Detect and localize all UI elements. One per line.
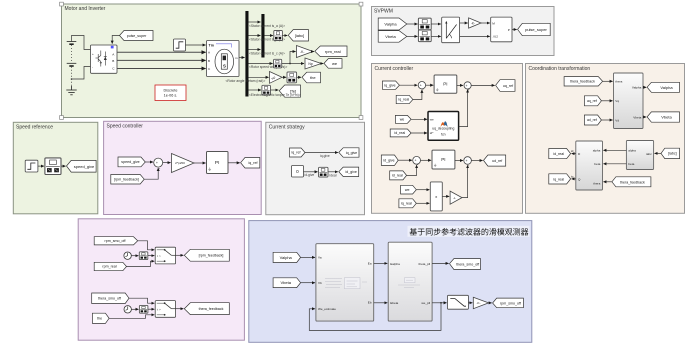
svg-text:uq_decoupling: uq_decoupling [432,127,454,131]
goto speed_give [67,160,97,172]
svg-text:x: x [435,194,437,199]
mux bar currents [261,14,264,58]
svg-text:1e-06 s.: 1e-06 s. [164,94,178,98]
switch rpm [155,247,175,264]
svg-text:P: P [508,28,510,32]
svg-text:-L: -L [453,196,456,200]
goto [rpm_feedback] [184,249,229,261]
svg-text:Valpha: Valpha [660,85,673,90]
svg-text:id-give: id-give [305,173,315,177]
wire compare2 to switch2 [148,308,154,310]
wire id_real to decoupling [411,132,427,134]
constant 0 [292,166,304,178]
svg-text:We_estimate: We_estimate [318,307,336,311]
svg-text:we: we [430,117,434,121]
From id_real q [390,129,411,137]
goto [iabc] [288,30,308,41]
product block [430,182,442,211]
wire theta to goto [432,262,449,264]
wire clock to compare [131,255,138,257]
label thetam [226,79,266,83]
svg-text:Ea: Ea [368,261,372,265]
svg-text:+: + [92,52,94,56]
svg-text:[rpm_feedback]: [rpm_feedback] [199,254,224,258]
cartesian to polar block [442,17,460,43]
From Vbeta smo [273,278,301,288]
wire beta between blocks [603,163,626,165]
wire iq_ref to iq_give [305,152,338,154]
From rpm_feedback [111,175,144,185]
step block Speed step [174,39,186,51]
wire alpha between blocks [603,149,626,151]
wire gain to rpm_real [313,51,314,53]
wire sum3 to PI d [421,159,432,161]
wire is_b [249,35,261,37]
svg-text:Ealpha: Ealpha [390,262,400,266]
wire we to product [416,189,429,191]
wire mux to rate transition iabc [265,35,273,37]
dq to alphabeta block [614,73,644,129]
gain -K- rpm [297,46,314,58]
wire product to gain [442,195,449,197]
wire gain to rpm_smo_off [489,302,492,304]
wire pulse_super to g port [112,36,119,44]
svg-text:<Electromagnetic torque Te (N*: <Electromagnetic torque Te (N*m)> [249,93,301,97]
goto we [324,59,342,69]
svg-text:ideal: ideal [330,174,337,178]
wire sum to gain [163,162,171,164]
wire ud_ref to dq2ab [601,119,612,121]
sum speed [154,158,163,170]
svg-text:alpha: alpha [628,149,636,153]
svg-text:Discrete: Discrete [164,88,178,92]
svg-text:Vd: Vd [615,118,619,122]
wire gain to sum4 [462,165,468,197]
wire PI to iq_ref [228,162,240,164]
bus selector bar [245,11,248,97]
svg-text:pulse_super: pulse_super [127,34,147,38]
svg-text:Speed reference: Speed reference [16,125,53,131]
From Valpha svpwm [378,18,407,30]
wire is_c [249,49,261,51]
svg-text:SVPWM: SVPWM [374,9,393,15]
wire Valpha to rate transition [407,23,418,25]
svg-text:Motor and Inverter: Motor and Inverter [65,6,106,12]
svg-text:Coordination transformation: Coordination transformation [529,66,591,72]
From thera_feedback mirrored [612,177,651,187]
goto ud_ref [484,155,506,166]
wire step to selector [38,165,44,167]
svg-text:iabc: iabc [646,152,652,156]
goto [Te] [279,85,300,97]
svg-text:[iabc]: [iabc] [295,33,305,38]
svg-text:[rpm_feedback]: [rpm_feedback] [114,178,139,182]
ground [66,86,76,95]
svg-text:-: - [92,65,93,69]
abc to alphabeta block [626,141,653,170]
wire sum4 to ud_ref [471,160,482,162]
wire Ea to Ealpha [374,262,388,264]
svg-text:iq_ref: iq_ref [249,161,258,165]
gain Np [305,58,321,69]
wire to polar block bottom [431,35,441,37]
svpwm subsystem [491,17,512,42]
wire gain to subsystem M [481,22,490,24]
wire sum2 to uq_ref [471,84,495,86]
svg-text:iq_ref: iq_ref [292,151,301,155]
svg-text:thera_feedback: thera_feedback [570,80,595,84]
wire decoupling to sum2 [459,90,468,127]
goto id_give [339,167,359,176]
gain smo [473,297,488,308]
svg-text:iq_real: iq_real [553,177,564,181]
panel Current controller [372,64,523,214]
goto iq_give [339,148,359,157]
wire to goto Te [271,89,279,91]
wire rpm_feedback to sum [144,168,158,179]
title SMO chinese [408,226,530,237]
wire to goto the [297,76,302,78]
From [iabc] mirrored [661,148,680,158]
wire PI d to sum4 [455,160,463,162]
svg-text:Np: Np [308,62,312,66]
svg-text:iq_give: iq_give [384,83,395,87]
From we q [395,115,411,123]
svg-text:id_give: id_give [346,170,357,174]
svg-text:id: id [571,149,574,153]
PI controller d [432,150,455,169]
DC source V1 [67,42,77,89]
wire switch2 to thera_feedback [176,308,184,310]
svg-text:+: + [156,161,158,165]
svg-text:we_pll: we_pll [421,301,430,305]
wire inverter C to motor C [117,68,206,70]
svg-text:Vbeta: Vbeta [280,280,291,285]
goto uq_ref [496,80,515,92]
svg-text:iq_real: iq_real [398,98,409,102]
From iq_real q [396,95,413,103]
label ideal [330,174,337,178]
label is_c [249,51,285,55]
svg-text:pulse_super: pulse_super [525,27,547,32]
svg-text:we: we [400,118,405,122]
wire sum to PI q [426,84,434,86]
svg-text:Vb: Vb [318,281,322,285]
svg-text:uq_ref: uq_ref [503,84,513,88]
wire thetam [249,76,269,78]
svg-text:id_give: id_give [383,158,394,162]
svg-text:thera_smo_off: thera_smo_off [456,263,479,267]
sum uq [464,82,471,92]
From rpm_smo_off [94,237,138,245]
svg-text:ud_ref: ud_ref [587,118,597,122]
wire we to lowpass and feedback [309,302,446,331]
svg-text:B: B [112,59,114,63]
svg-text:iq_real: iq_real [401,202,412,206]
svg-text:-K-: -K- [471,21,475,25]
svg-text:thera: thera [593,182,600,186]
From iq_give [382,81,399,89]
svg-text:Va: Va [318,256,322,260]
panel Speed controller [104,121,262,214]
PI controller speed [207,152,229,174]
goto Vbeta [647,112,679,122]
svg-text:beta: beta [628,162,634,166]
svg-text:M: M [492,21,495,25]
clock rpm [124,252,131,259]
gain Lq [450,191,462,204]
wire to polar block top [431,23,441,25]
svg-text:Current controller: Current controller [375,66,414,72]
wire iq_give to sum [399,84,417,86]
compare block rpm [139,252,148,260]
panel Speed reference [13,122,98,214]
From Valpha smo [273,252,301,262]
svg-text:m: m [235,56,238,60]
wire polar to gain [460,22,468,24]
wire Np to we [321,63,323,65]
svg-text:thera_feedback: thera_feedback [199,307,224,311]
svg-text:beta: beta [594,162,600,166]
panel sliding-mode observer [249,221,532,343]
goto Valpha [647,82,679,92]
wire PI q to sum2 [457,84,463,86]
wire battery+ to inverter [72,36,91,50]
svg-text:the: the [310,75,316,80]
svg-text:Valpha: Valpha [632,86,642,90]
wire the to switch2 [109,315,154,319]
From the [92,313,109,323]
PI controller q [434,75,457,93]
svg-text:theta_pll: theta_pll [418,262,430,266]
svg-text:0: 0 [296,169,299,174]
wire subsystem to goto [512,29,517,31]
wire gain to PI speed [194,162,206,164]
wire to goto iabc [282,35,287,37]
label id-give [305,173,315,177]
gain 2pi60 [172,154,195,173]
sum id [413,156,421,167]
wire rpm_real to switch [127,261,155,266]
svg-text:thera_feedback: thera_feedback [620,180,645,184]
From we d [401,185,417,194]
svg-text:Valpha: Valpha [384,22,397,27]
svg-text:iq-give: iq-give [320,154,330,158]
sum ud [464,157,472,168]
wire clock2 to compare2 [131,308,138,310]
svg-text:iq_give: iq_give [346,151,357,155]
svg-text:thera: thera [615,80,622,84]
From thera_feedback top [564,77,603,86]
svg-text:t >: t > [157,308,161,312]
rate transition thetam [287,72,297,83]
svg-text:PI: PI [215,160,220,166]
wire step to motor Tm [186,44,206,46]
wire is_a [249,21,261,23]
label is_a [249,24,285,28]
wire speed_give to sum [145,161,153,163]
wire D to id_real [571,149,576,153]
svg-text:alpha: alpha [593,149,601,153]
wire inverter B to motor B [117,59,206,61]
From id_real d [390,171,407,180]
From thera_smo_off [92,293,129,304]
wire Vbeta to rate transition [407,35,418,37]
goto thera_smo_off [450,259,481,270]
svg-text:Valpha: Valpha [280,255,293,260]
svg-text:<Stator current is_a (A)>: <Stator current is_a (A)> [249,24,285,28]
svg-text:we: we [332,61,338,66]
rate transition Vbeta [418,30,431,42]
label is_b [249,37,285,41]
label wm [249,65,287,69]
goto rpm_real [315,46,347,57]
svg-text:rpm_real: rpm_real [102,265,116,269]
From tag pulse_super [120,31,154,41]
wire Q to iq_real [571,175,576,179]
wire thera_smo_off to switch [129,298,154,303]
From speed_give [118,157,145,167]
wire uq_ref to dq2ab [601,100,612,102]
label Te [249,93,301,97]
PMSM motor block [207,41,240,77]
PLL block [388,242,432,321]
wire Te [249,89,262,91]
label iq-give [320,154,330,158]
svg-text:Speed controller: Speed controller [107,124,144,130]
wire iq_real to sum [413,90,422,100]
powergui Discrete [155,85,186,101]
svg-text:-K-: -K- [300,50,305,54]
sum iq [418,82,425,92]
wire thera to dq2ab [603,80,613,82]
rate transition id [319,167,329,177]
matlab function uq_decoupling [428,112,459,141]
wire selector to goto [61,165,66,167]
From iq_ref [290,148,306,157]
From Vbeta svpwm [378,31,407,43]
wire iabc to abc2ab [655,152,662,154]
svg-text:S: S [223,64,226,69]
goto iq_ref [241,158,260,169]
wire wm to rate transition [249,63,273,65]
wire lowpass to gain [468,302,472,304]
wire id_real to sum3 [407,165,417,175]
svg-text:Vbeta: Vbeta [661,115,672,120]
svg-text:Vbeta: Vbeta [385,34,396,39]
panel Current strategy [266,122,365,214]
goto id_real mirrored [549,149,571,159]
From rpm_real [94,262,126,270]
panel feedback switch area [78,219,244,340]
svg-text:Vq: Vq [615,99,619,103]
svg-text:rpm_smo_off: rpm_smo_off [105,239,126,243]
wire compare to switch [148,255,155,257]
svg-text:the: the [97,317,102,321]
rate transition Valpha [418,18,431,30]
svg-text:[iabc]: [iabc] [668,152,677,156]
svg-text:Vbeta: Vbeta [633,115,641,119]
wire switch to rpm_feedback [176,254,184,256]
svg-text:fcn: fcn [441,132,446,136]
lowpass block [448,295,469,309]
gain -K- svpwm [469,18,481,28]
svg-text:Current strategy: Current strategy [269,125,305,131]
wire we to decoupling [411,118,427,120]
gain R2D [270,72,283,84]
goto thera_feedback [184,303,229,315]
wire rate to id_give [328,171,338,173]
svg-text:ud_ref: ud_ref [492,159,502,163]
wire rpm_smo_off to switch [138,241,155,250]
goto the [302,72,321,83]
svg-text:t >: t > [157,254,161,258]
svg-text:rpm_smo_off: rpm_smo_off [500,301,521,305]
panel Motor and Inverter [60,2,363,119]
wire id_give to sum3 [398,159,412,161]
clock thera [124,306,131,313]
svg-text:PI: PI [441,157,445,162]
svg-text:<Stator current is_c (A)>: <Stator current is_c (A)> [249,51,285,55]
SMO block [316,244,374,321]
svg-text:speed_give: speed_give [74,164,95,169]
rate transition wm [274,59,282,68]
svg-text:B: B [208,59,210,63]
panel SVPWM [372,7,555,56]
svg-text:2*pi/60: 2*pi/60 [175,161,185,165]
svg-text:Tm: Tm [209,44,214,48]
wire Vbeta to smo [301,282,315,284]
wire wm branch [282,52,304,65]
signal selector block [45,158,61,175]
svg-text:-K-: -K- [477,301,481,305]
rate transition iabc [274,31,283,41]
wire thera to ab2dq [603,181,612,183]
wire polar to subsystem U2 [460,35,490,37]
step block speed reference [25,160,38,172]
wire to goto Vbeta [643,116,646,118]
wire inverter A to motor A [117,51,206,53]
inverter bridge U_inv [91,45,118,73]
rate transition Te [262,85,271,95]
panel Coordination transformation [526,64,685,214]
svg-text:id_real: id_real [394,131,405,135]
wire iq_real to product [416,202,429,204]
svg-text:id_real: id_real [553,152,564,156]
goto iq_real mirrored [549,174,571,184]
switch thera [155,301,175,318]
svg-text:rpm_real: rpm_real [325,49,341,54]
wire const to rate transition [304,171,318,173]
svg-text:PI: PI [443,82,447,87]
wire R2D to rate transition [282,76,286,78]
goto rpm_smo_off [493,298,524,308]
From id_give [381,155,398,165]
wire Eb to Ebeta [374,302,388,304]
svg-text:Eb: Eb [368,301,372,305]
alphabeta to dq block [576,141,603,190]
svg-text:iq: iq [571,175,574,179]
From iq_real d [399,199,416,208]
svg-text:we: we [405,188,410,192]
From ud_ref [584,115,601,125]
wire battery- to inverter [71,67,91,80]
svg-text:Ebeta: Ebeta [390,301,398,305]
svg-text:uq_ref: uq_ref [587,99,597,103]
svg-text:speed_give: speed_give [121,160,139,164]
svg-text:./U2: ./U2 [492,35,498,39]
From uq_ref [584,96,601,106]
